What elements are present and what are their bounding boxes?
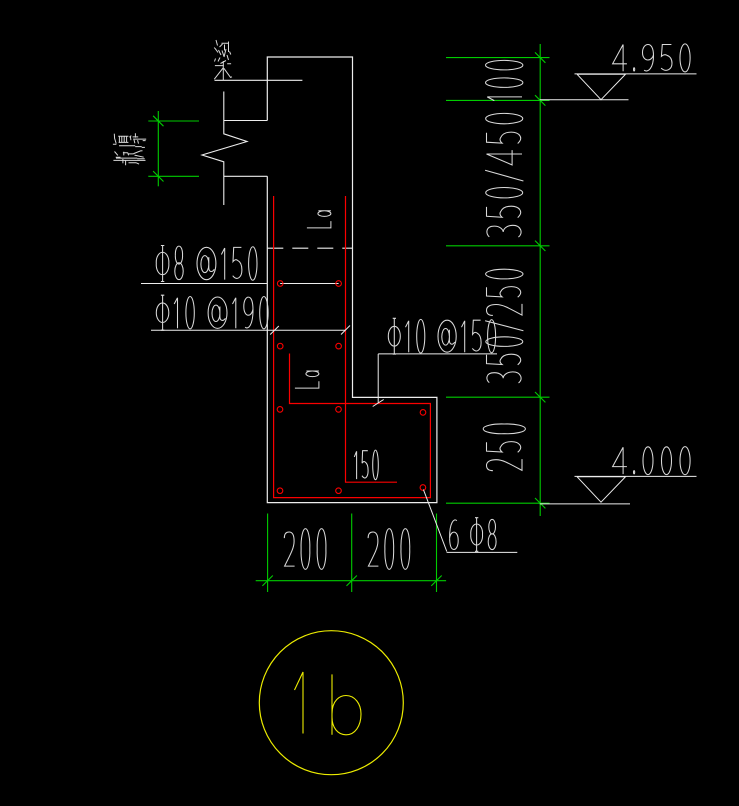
- label Φ10@190 tick: [341, 326, 350, 335]
- elevation underline: [575, 475, 697, 477]
- label 6Φ8: [450, 518, 497, 552]
- slab break line: [202, 92, 247, 206]
- rebar outer bar path: [274, 196, 431, 498]
- dim tick 4: [535, 392, 545, 402]
- dim tick 1: [535, 52, 545, 62]
- slab dim tick bottom: [153, 171, 163, 181]
- rebar dot 8: [277, 488, 283, 494]
- dim line vertical right: [539, 44, 541, 516]
- dim text 200 left: [284, 529, 326, 570]
- detail bubble circle: [259, 631, 403, 775]
- label Φ10@150 tick: [373, 400, 384, 407]
- rebar bent bar with 150 hook: [346, 196, 398, 482]
- label 6Φ8 underline: [447, 551, 518, 553]
- rebar dot 5: [277, 407, 283, 413]
- rebar dot 2: [336, 281, 342, 287]
- dim tick 5: [535, 498, 545, 508]
- elevation triangle: [577, 74, 626, 100]
- slab label 厚: [113, 151, 145, 166]
- detail label 1b: [295, 672, 362, 735]
- label Φ8@150 underline: [141, 283, 267, 285]
- elevation triangle: [577, 477, 626, 503]
- dim text 250: [483, 424, 525, 471]
- label Φ10@190 underline: [151, 329, 345, 331]
- beam leader line: [215, 79, 303, 81]
- bottom extension line 1: [267, 514, 269, 593]
- rebar dot 6: [336, 407, 342, 413]
- dim text 100: [486, 60, 523, 100]
- label Φ8@150: [156, 246, 257, 282]
- rebar dot 7: [420, 410, 426, 416]
- label Φ10@150 leader: [377, 354, 379, 403]
- label Φ10@190 tick at bar A: [270, 326, 279, 335]
- slab top edge: [224, 120, 267, 122]
- dim text 350/250: [485, 269, 523, 383]
- elevation text 4.950: [613, 44, 691, 72]
- dashed level line: [267, 247, 352, 249]
- slab dim bottom line: [148, 175, 199, 177]
- label Φ10@190: [156, 295, 268, 330]
- rebar dot 1: [277, 281, 283, 287]
- rebar dot 4: [336, 343, 342, 349]
- label 150 hook: [354, 450, 378, 480]
- dim extension line 1: [446, 57, 550, 59]
- bottom dim tick 2: [347, 576, 357, 586]
- dim text 200 right: [368, 529, 410, 570]
- slab bottom edge: [224, 175, 267, 177]
- dim tick 3: [535, 241, 545, 251]
- bottom dim tick 3: [431, 576, 441, 586]
- rebar dot 9: [336, 488, 342, 494]
- elevation text 4.000: [613, 447, 691, 475]
- slab label 板: [113, 133, 146, 147]
- bottom extension line 2: [351, 514, 353, 593]
- dim extension line 4: [446, 396, 550, 398]
- bottom extension line 3: [436, 514, 438, 593]
- dim extension line 5: [446, 502, 550, 504]
- label Φ10@150 underline: [378, 353, 497, 355]
- dim text 350/450: [485, 113, 523, 237]
- slab dim top line: [148, 120, 199, 122]
- elevation level line 4.950: [540, 99, 629, 101]
- dim tick 2: [535, 95, 545, 105]
- label Φ10@150: [388, 318, 495, 354]
- bottom dim tick 1: [262, 576, 272, 586]
- concrete wall outline: [267, 57, 437, 503]
- stirrup leg line: [280, 283, 338, 285]
- dim line bottom: [256, 580, 446, 582]
- rebar dot 3: [277, 343, 283, 349]
- dim extension line 3: [446, 245, 550, 247]
- elevation underline: [575, 73, 697, 75]
- rebar dot 10: [420, 485, 426, 491]
- slab dim vertical: [157, 111, 159, 186]
- label 6Φ8 leader: [423, 490, 446, 552]
- slab dim tick top: [153, 116, 163, 126]
- label La upper: [307, 211, 331, 228]
- elevation level line 4.000: [540, 503, 630, 505]
- beam label 梁: [214, 40, 232, 80]
- dim extension line 2: [446, 99, 550, 101]
- label La lower: [295, 371, 319, 388]
